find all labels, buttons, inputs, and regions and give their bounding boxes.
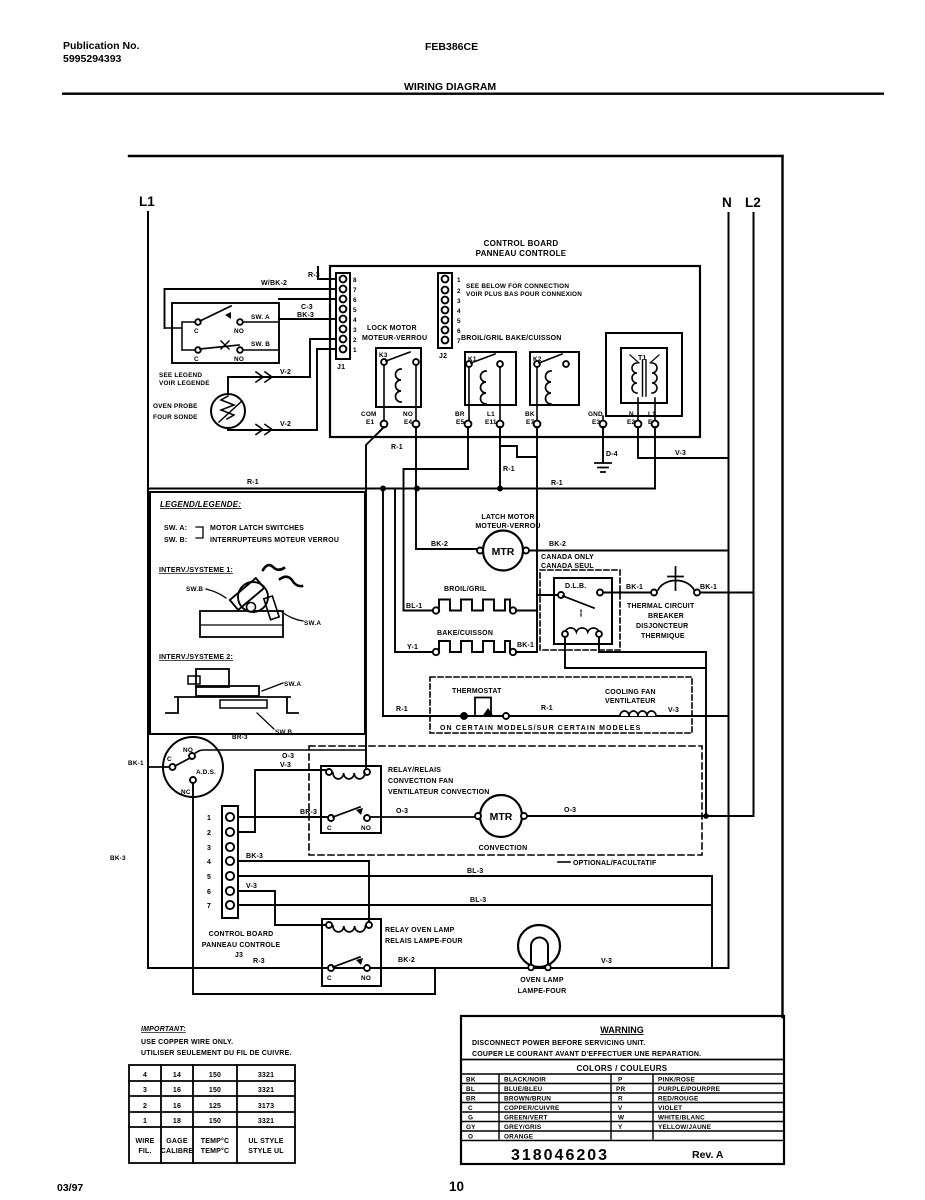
svg-text:ORANGE: ORANGE [504,1134,534,1141]
relay convection fan [321,766,381,833]
svg-text:C: C [167,756,172,763]
svg-text:OPTIONAL/FACULTATIF: OPTIONAL/FACULTATIF [573,860,657,867]
wire from bus down to thermostat [382,489,384,717]
relay K3 lock motor [362,325,562,342]
svg-text:NO: NO [234,328,244,335]
svg-text:THERMAL CIRCUIT: THERMAL CIRCUIT [627,603,695,610]
node L2 label [745,195,761,210]
svg-text:PANNEAU CONTROLE: PANNEAU CONTROLE [202,942,281,949]
wire from E1 right down to R-1 bus [654,427,656,489]
svg-text:COPPER/CUIVRE: COPPER/CUIVRE [504,1105,560,1112]
connector J1 [336,273,350,359]
svg-text:SEE LEGEND: SEE LEGEND [159,372,202,379]
wire bake right to E7 line [516,651,537,653]
svg-text:VOIR PLUS BAS POUR CONNEXION: VOIR PLUS BAS POUR CONNEXION [466,291,582,298]
ground symbol [595,463,611,472]
svg-text:2: 2 [143,1103,147,1110]
wire BK-2 from E4 to latch motor [416,427,478,549]
svg-text:E11: E11 [485,419,497,426]
svg-text:BLUE/BLEU: BLUE/BLEU [504,1086,543,1093]
svg-text:NO: NO [403,411,413,418]
svg-text:L1: L1 [648,411,656,418]
svg-text:4: 4 [207,859,211,866]
svg-text:MOTEUR-VERROU: MOTEUR-VERROU [362,335,427,342]
switch SW.B [182,349,279,351]
wire from E3 to ground [602,427,604,462]
IMPORTANT note and wire table [141,1026,292,1057]
wire from E11 down to R-1 bus [499,446,501,487]
svg-text:SW. B: SW. B [251,341,270,348]
relay D.L.B. [554,578,612,644]
wire gauge table [129,1065,295,1163]
svg-text:3321: 3321 [258,1087,274,1094]
svg-text:USE COPPER WIRE ONLY.: USE COPPER WIRE ONLY. [141,1039,233,1046]
svg-text:C: C [327,975,332,982]
svg-text:BK-1: BK-1 [626,584,643,591]
svg-text:RED/ROUGE: RED/ROUGE [658,1096,699,1103]
svg-text:BK: BK [525,411,535,418]
svg-text:BK-2: BK-2 [549,541,566,548]
svg-text:UL STYLE: UL STYLE [248,1138,283,1145]
wire N bus vertical [728,213,730,968]
legend drawing 2: latch mechanism 2 [196,669,229,687]
svg-text:GY: GY [466,1124,476,1131]
page footer [57,1179,464,1194]
colors table [461,1074,784,1141]
svg-text:BK-3: BK-3 [246,853,263,860]
svg-text:YELLOW/JAUNE: YELLOW/JAUNE [658,1124,712,1131]
wire L2 bus vertical [753,213,755,816]
relay oven lamp [322,919,381,986]
svg-text:BK-1: BK-1 [517,642,534,649]
svg-text:BROWN/BRUN: BROWN/BRUN [504,1096,551,1103]
svg-text:NO: NO [183,747,193,754]
oven lamp [518,925,560,967]
svg-text:LEGEND/LEGENDE:: LEGEND/LEGENDE: [160,500,241,509]
svg-text:E5: E5 [456,419,464,426]
svg-text:MTR: MTR [490,811,513,823]
svg-text:GREEN/VERT: GREEN/VERT [504,1115,548,1122]
svg-text:BREAKER: BREAKER [648,613,684,620]
svg-text:D-4: D-4 [606,451,618,458]
svg-text:16: 16 [173,1103,181,1110]
svg-text:VENTILATEUR: VENTILATEUR [605,698,656,705]
svg-text:TEMP°C: TEMP°C [201,1147,230,1155]
svg-text:BK-3: BK-3 [110,855,126,862]
svg-text:C-3: C-3 [301,304,313,311]
wire V-2 top (J1 pin 2 to oven probe) [228,339,336,394]
transformer T1 [606,333,682,416]
terminal E7 [534,421,541,428]
svg-text:NO: NO [361,975,371,982]
svg-text:03/97: 03/97 [57,1182,83,1194]
wire J3 pin6 (V-3) to oven lamp relay coil left [238,891,326,925]
svg-text:8: 8 [353,277,357,284]
svg-text:N: N [722,195,732,210]
bake element [437,630,493,637]
svg-text:C: C [194,328,199,335]
svg-text:BL-3: BL-3 [467,868,483,875]
svg-text:WHITE/BLANC: WHITE/BLANC [658,1115,705,1122]
terminal E4 [413,421,420,428]
svg-text:V: V [618,1105,623,1112]
terminal E3 [600,421,607,428]
wire from E5 [404,427,469,611]
main frame right border [781,156,783,1017]
svg-text:ON CERTAIN MODELS/SUR CERTAIN: ON CERTAIN MODELS/SUR CERTAIN MODELES [440,725,641,732]
wire BK-2 latch motor to N bus [529,550,729,552]
svg-text:Publication No.: Publication No. [63,40,140,52]
svg-text:INTERV./SYSTEME 2:: INTERV./SYSTEME 2: [159,654,233,661]
svg-text:L1: L1 [139,194,155,209]
svg-text:CANADA SEUL: CANADA SEUL [541,563,594,570]
terminal E11 [497,421,504,428]
svg-text:SW. A:: SW. A: [164,525,187,532]
svg-text:SW. B:: SW. B: [164,537,187,544]
svg-text:4: 4 [457,308,461,315]
svg-text:MOTOR LATCH SWITCHES: MOTOR LATCH SWITCHES [210,525,304,532]
svg-text:3173: 3173 [258,1103,274,1110]
svg-text:VIOLET: VIOLET [658,1105,682,1112]
svg-text:COM: COM [361,411,377,418]
svg-text:CONTROL BOARD: CONTROL BOARD [209,931,274,938]
wire R-1 through thermostat to cooling fan and N [383,715,729,717]
svg-text:BR-3: BR-3 [232,734,248,741]
CANADA ONLY dashed box [541,554,594,570]
svg-text:NC: NC [181,789,191,796]
svg-text:SW.A: SW.A [284,681,301,688]
svg-text:1: 1 [143,1118,147,1125]
wire C-3 from J1 pin 6 [279,298,336,300]
svg-text:BLACK/NOIR: BLACK/NOIR [504,1077,546,1084]
terminal E5 [465,421,472,428]
svg-text:FEB386CE: FEB386CE [425,41,478,53]
svg-text:R-1: R-1 [541,705,553,712]
wire D.L.B. switch to thermal breaker [603,592,651,594]
svg-text:10: 10 [449,1179,464,1194]
svg-text:150: 150 [209,1118,221,1125]
svg-text:3: 3 [143,1087,147,1094]
wire from E7 down [536,427,538,651]
wire V-3 from E2 to N bus [638,427,729,458]
svg-text:DISJONCTEUR: DISJONCTEUR [636,623,688,630]
svg-text:LAMPE-FOUR: LAMPE-FOUR [518,988,567,995]
cooling fan coil [605,689,656,705]
wire D.L.B. coil right down across [599,637,706,652]
svg-text:3: 3 [457,298,461,305]
svg-text:O: O [468,1134,473,1141]
relay K2 bake [530,352,579,405]
svg-text:Y-1: Y-1 [407,644,418,651]
svg-text:16: 16 [173,1087,181,1094]
svg-text:MOTEUR-VERROU: MOTEUR-VERROU [475,523,540,530]
svg-text:O-3: O-3 [396,808,408,815]
svg-text:V-2: V-2 [280,421,291,428]
svg-text:BR: BR [466,1096,476,1103]
svg-text:PINK/ROSE: PINK/ROSE [658,1077,695,1084]
svg-text:V-3: V-3 [601,958,612,965]
wire D.L.B. coil left down across [565,637,706,668]
connector J2 [438,273,452,348]
wire down to broil element [404,610,434,612]
relay K1 broil [465,352,516,405]
optional dashed box [309,746,702,855]
terminal row E-points under control board [361,411,656,426]
svg-text:5: 5 [207,874,211,881]
svg-text:6: 6 [457,328,461,335]
wire J3 pin2 to convection relay coil [238,770,326,832]
svg-text:RELAY/RELAIS: RELAY/RELAIS [388,767,441,774]
svg-text:WIRING DIAGRAM: WIRING DIAGRAM [404,81,496,93]
svg-text:7: 7 [207,903,211,910]
svg-text:WIRE: WIRE [135,1138,154,1145]
svg-text:3321: 3321 [258,1072,274,1079]
wire W/BK-2 from J1 pin 7 [165,289,337,328]
svg-text:COUPER LE COURANT AVANT D'EFFE: COUPER LE COURANT AVANT D'EFFECTUER UNE … [472,1051,701,1058]
svg-text:150: 150 [209,1072,221,1079]
svg-text:SW.A: SW.A [304,620,321,627]
svg-text:R-1: R-1 [503,466,515,473]
svg-text:BROIL/GRIL: BROIL/GRIL [444,586,487,593]
wire E7 vertical to D.L.B. switch [537,594,558,596]
svg-text:D.L.B.: D.L.B. [565,583,586,590]
legend drawing 1: latch mechanism [200,611,283,637]
wire L1 bus vertical [147,212,149,968]
svg-text:INTERRUPTEURS MOTEUR VERROU: INTERRUPTEURS MOTEUR VERROU [210,537,339,544]
svg-text:3: 3 [353,327,357,334]
svg-text:IMPORTANT:: IMPORTANT: [141,1026,186,1033]
wire V-2 bottom (J1 pin 1 to oven probe) [228,349,336,430]
svg-text:5995294393: 5995294393 [63,53,122,65]
node L1 label [139,194,155,209]
svg-text:C: C [468,1105,473,1112]
thermal circuit breaker [651,590,657,596]
svg-text:COLORS / COULEURS: COLORS / COULEURS [577,1064,668,1073]
svg-text:BK-2: BK-2 [431,541,448,548]
svg-text:SW.B: SW.B [186,586,203,593]
svg-text:V-3: V-3 [280,762,291,769]
latch motor MTR [475,514,540,530]
svg-text:NO: NO [234,356,244,363]
junction dots on R-1 bus [380,486,503,492]
svg-text:4: 4 [143,1072,147,1079]
terminal E1 [381,421,388,428]
wire from E11 to E7 jog [500,427,537,457]
thermostat symbol [461,713,467,719]
svg-text:BK-3: BK-3 [297,312,314,319]
broil element [444,586,487,593]
svg-text:BROIL/GRIL BAKE/CUISSON: BROIL/GRIL BAKE/CUISSON [461,335,562,342]
header rule [62,93,884,95]
svg-text:BK-1: BK-1 [700,584,717,591]
wire R-3 from J1 pin 8 [318,267,336,279]
wire R-1 main bus [148,488,655,490]
terminal E1 right [652,421,659,428]
svg-text:4: 4 [353,317,357,324]
svg-text:UTILISER SEULEMENT DU FIL DE C: UTILISER SEULEMENT DU FIL DE CUIVRE. [141,1050,292,1057]
svg-text:SEE BELOW FOR CONNECTION: SEE BELOW FOR CONNECTION [466,283,569,290]
svg-text:E1: E1 [366,419,374,426]
svg-text:CONVECTION FAN: CONVECTION FAN [388,778,453,785]
svg-text:C: C [327,825,332,832]
svg-text:O-3: O-3 [282,753,294,760]
svg-text:V-3: V-3 [246,883,257,890]
wire vertical to convection motor line [705,652,707,816]
wire A.D.S. NO to R-1 drop [194,750,366,754]
svg-text:W/BK-2: W/BK-2 [261,280,287,287]
svg-text:2: 2 [353,337,357,344]
header: publication number [63,40,496,93]
wire O-3 convection motor to L2 [527,815,754,817]
svg-text:7: 7 [353,287,357,294]
svg-text:6: 6 [353,297,357,304]
svg-text:R-1: R-1 [391,444,403,451]
svg-text:BL-1: BL-1 [406,603,422,610]
wire R-1 drop into convection relay coil right [365,750,367,769]
svg-text:R-1: R-1 [396,706,408,713]
svg-text:PR: PR [616,1086,625,1093]
svg-text:3: 3 [207,845,211,852]
svg-text:CONTROL BOARD: CONTROL BOARD [484,239,559,248]
terminal E2 [635,421,642,428]
svg-text:GND: GND [588,411,603,418]
svg-text:LOCK MOTOR: LOCK MOTOR [367,325,417,332]
svg-text:WARNING: WARNING [600,1025,644,1035]
svg-text:R-1: R-1 [247,479,259,486]
svg-text:J3: J3 [235,952,243,959]
wire from bus down to bake element [395,489,433,653]
svg-text:GREY/GRIS: GREY/GRIS [504,1124,542,1131]
control board box [330,266,700,437]
svg-text:6: 6 [207,889,211,896]
svg-text:BL: BL [466,1086,475,1093]
note: see legend [159,372,210,387]
svg-text:L1: L1 [487,411,495,418]
thermostat dashed box [430,677,692,733]
svg-text:2: 2 [207,830,211,837]
svg-text:SW. A: SW. A [251,314,270,321]
svg-text:BK-2: BK-2 [398,957,415,964]
svg-text:1: 1 [207,815,211,822]
wire J3 pin4 (BK-3) to oven lamp relay coil right [238,861,369,922]
wire broil right to E7 line [516,610,537,612]
wire A.D.S. NC down and around [193,783,435,994]
svg-text:1: 1 [457,277,461,284]
svg-text:OVEN LAMP: OVEN LAMP [520,977,564,984]
svg-text:PANNEAU CONTROLE: PANNEAU CONTROLE [476,249,567,258]
svg-text:COOLING FAN: COOLING FAN [605,689,656,696]
svg-text:CALIBRE: CALIBRE [161,1148,194,1155]
node N label [722,195,732,210]
svg-text:CANADA ONLY: CANADA ONLY [541,554,594,561]
wire R-1 from E1 down to A.D.S. area [366,427,384,750]
svg-text:125: 125 [209,1103,221,1110]
svg-text:THERMIQUE: THERMIQUE [641,633,685,640]
wire J3 pin1 to convection relay switch [238,816,328,818]
svg-text:3321: 3321 [258,1118,274,1125]
svg-text:FIL.: FIL. [138,1148,151,1155]
svg-text:5: 5 [353,307,357,314]
svg-text:Rev. A: Rev. A [692,1149,724,1161]
svg-text:BAKE/CUISSON: BAKE/CUISSON [437,630,493,637]
svg-text:R-1: R-1 [551,480,563,487]
note: see below for connection [466,283,582,298]
svg-text:VENTILATEUR CONVECTION: VENTILATEUR CONVECTION [388,789,490,796]
svg-text:W: W [618,1115,625,1122]
svg-text:V-2: V-2 [280,369,291,376]
svg-text:14: 14 [173,1072,181,1079]
svg-text:LATCH MOTOR: LATCH MOTOR [481,514,534,521]
svg-text:TEMP°C: TEMP°C [201,1137,230,1145]
svg-text:BR: BR [455,411,465,418]
wire J3 pin7 (BL-3) [238,876,712,968]
svg-text:1: 1 [353,347,357,354]
svg-text:VOIR LEGENDE: VOIR LEGENDE [159,380,210,387]
svg-text:DISCONNECT POWER BEFORE SERVIC: DISCONNECT POWER BEFORE SERVICING UNIT. [472,1040,645,1047]
svg-text:RELAIS LAMPE-FOUR: RELAIS LAMPE-FOUR [385,938,463,945]
svg-text:GAGE: GAGE [166,1138,188,1145]
svg-text:G: G [468,1115,473,1122]
svg-text:150: 150 [209,1087,221,1094]
svg-text:K3: K3 [379,352,388,359]
wire BK-3 from J1 pin 4 [279,318,336,320]
svg-text:C: C [194,356,199,363]
svg-text:318046203: 318046203 [511,1147,609,1164]
svg-text:NO: NO [361,825,371,832]
WARNING box [461,1016,784,1164]
svg-text:MTR: MTR [492,546,515,558]
svg-text:Y: Y [618,1124,623,1131]
svg-text:N: N [629,411,634,418]
convection fan motor MTR [370,816,476,818]
svg-text:V-3: V-3 [668,707,679,714]
svg-text:OVEN PROBE: OVEN PROBE [153,403,198,410]
svg-text:5: 5 [457,318,461,325]
svg-text:2: 2 [457,288,461,295]
wire J3 pin5 (BL-3) [238,875,712,877]
oven probe [211,394,245,428]
svg-text:R-3: R-3 [253,958,265,965]
svg-text:P: P [618,1077,623,1084]
connector J3 [222,806,238,918]
main frame top border [129,155,783,157]
svg-text:R-3: R-3 [308,272,320,279]
svg-text:CONVECTION: CONVECTION [479,845,528,852]
svg-text:PURPLE/POURPRE: PURPLE/POURPRE [658,1086,721,1093]
wire bottom main line (oven lamp circuit) [148,967,729,969]
svg-text:BL-3: BL-3 [470,897,486,904]
svg-text:BK: BK [466,1077,476,1084]
svg-text:L2: L2 [745,195,761,210]
switch SW.A [165,322,279,350]
svg-text:A.D.S.: A.D.S. [196,769,216,776]
legend box [150,492,365,734]
svg-text:SW.B: SW.B [275,729,292,736]
svg-text:RELAY OVEN LAMP: RELAY OVEN LAMP [385,927,455,934]
svg-text:O-3: O-3 [564,807,576,814]
svg-text:THERMOSTAT: THERMOSTAT [452,688,502,695]
svg-text:J1: J1 [337,364,345,371]
svg-text:INTERV./SYSTEME 1:: INTERV./SYSTEME 1: [159,567,233,574]
svg-text:BK-1: BK-1 [128,760,144,767]
svg-text:STYLE UL: STYLE UL [248,1148,284,1155]
switch box SW.A / SW.B [172,303,279,363]
svg-text:R: R [618,1096,623,1103]
svg-text:18: 18 [173,1118,181,1125]
svg-text:J2: J2 [439,353,447,360]
svg-text:FOUR SONDE: FOUR SONDE [153,414,198,421]
switch A.D.S. [163,737,223,797]
